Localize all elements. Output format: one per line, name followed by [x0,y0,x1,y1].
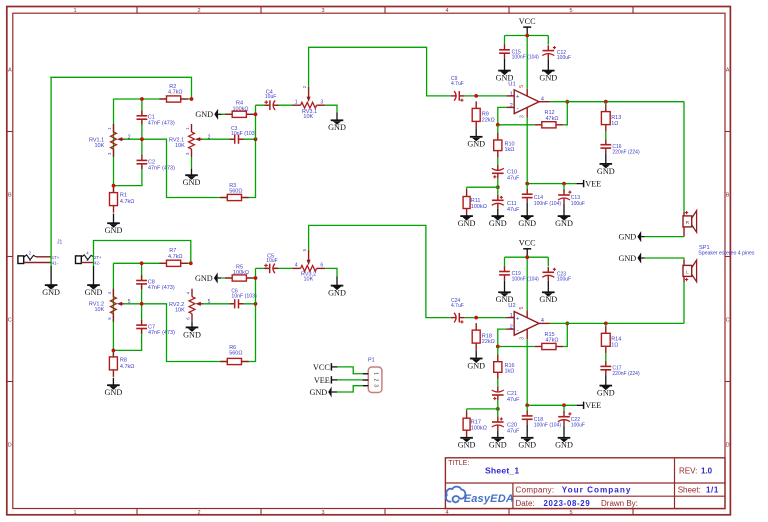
title block outline [445,458,725,509]
svg-text:2: 2 [373,379,379,382]
wire VEE rail to C22 [563,405,565,413]
svg-text:GND: GND [597,389,615,398]
wire VEE rail to C18 [526,405,528,412]
svg-text:GND: GND [496,74,514,83]
wire U1 output down to speaker R [683,102,685,212]
wire C9 to op-amp pin 1 [465,95,507,97]
junction R9 top [474,94,478,98]
resistor R10 [497,133,499,140]
capacitor C13 [558,194,570,200]
svg-text:22kΩ: 22kΩ [482,118,495,124]
wire RV3.1 wiper feed to amp input [309,47,451,96]
ground RV2.1 [191,157,193,169]
wire C4 row [256,104,293,106]
svg-text:GND: GND [555,441,573,450]
wire R10 column top [497,125,499,135]
VEE power flag [583,402,585,409]
capacitor C3 [234,134,240,144]
svg-text:10uF: 10uF [265,94,276,100]
wire VEE rail to C14 [526,184,528,191]
resistor R7 [159,262,166,264]
resistor R16 [497,355,499,362]
svg-text:10K: 10K [303,114,313,120]
svg-text:-: - [517,327,519,334]
svg-text:B: B [726,193,730,199]
wire R13 to C16 [605,132,607,140]
wire C4 column [255,105,257,139]
svg-text:VCC: VCC [313,363,330,372]
wire op-amp pin 3 to VEE rail [526,118,528,184]
wire RV1.2 branch down / R8 top [112,263,114,357]
svg-text:47kΩ: 47kΩ [546,116,559,122]
svg-text:GND: GND [496,295,514,304]
wire speaker R return [645,236,684,238]
wire R14 to C17 [605,353,607,361]
wire C5 column [255,268,257,303]
junction C21 bottom [496,407,500,411]
ground R11 [466,215,468,216]
wire R15 to output [563,323,567,346]
svg-text:5: 5 [569,510,572,516]
svg-text:41-: 41- [52,260,59,265]
resistor R11 [466,190,468,197]
resistor R6 [220,361,227,363]
wire C8 bottom junction to C7 [141,304,143,321]
junction R18 top [474,316,478,320]
VEE flag at P1 [330,376,332,383]
svg-text:47uF: 47uF [507,176,520,182]
wire feedback pin 2 loop [498,329,535,346]
svg-text:L: L [686,270,689,276]
svg-text:100kΩ: 100kΩ [471,204,487,210]
svg-text:100kΩ: 100kΩ [233,106,249,112]
svg-text:47uF: 47uF [507,207,520,213]
wire RV3.2 wiper feed to amp 2 input [309,225,451,317]
svg-text:VEE: VEE [585,180,601,189]
resistor R15 [535,346,542,348]
svg-text:5: 5 [519,85,525,88]
capacitor C17 [600,365,611,371]
ground C17 [605,375,607,386]
wire VEE rail [527,404,576,406]
svg-text:GND: GND [105,226,123,235]
EasyEDA logo [446,487,465,503]
wire C5 row [256,267,293,269]
svg-text:47nF (473): 47nF (473) [148,330,175,336]
svg-text:3: 3 [519,337,525,340]
speaker SP1 R element [683,212,685,216]
svg-text:100uF: 100uF [571,423,585,429]
svg-text:47nF (473): 47nF (473) [148,285,175,291]
capacitor C14 [522,193,533,199]
svg-text:A: A [8,68,12,74]
wire R17 branch [467,408,498,410]
svg-text:GND: GND [618,254,636,263]
wire VEE rail to C13 [563,184,565,192]
potentiometer RV1.2 [111,297,117,314]
svg-text:R: R [686,220,690,226]
svg-text:GND: GND [458,219,476,228]
svg-text:GND: GND [105,388,123,397]
VEE power flag [583,180,585,187]
capacitor C22 [558,415,570,421]
svg-text:REV:: REV: [679,466,697,475]
svg-text:GND: GND [489,219,507,228]
junction feedback [496,123,500,127]
wire output row [550,322,685,324]
op-amp U2 [506,317,514,319]
svg-text:4.7uF: 4.7uF [451,303,464,309]
svg-text:GND: GND [555,219,573,228]
svg-text:GND: GND [458,441,476,450]
resistor R12 [535,124,542,126]
ground C19 [504,280,506,292]
wire C7 bottom to R8 junction [113,328,141,351]
capacitor C4 [269,100,275,110]
svg-text:1kΩ: 1kΩ [505,369,515,375]
svg-text:GND: GND [328,289,346,298]
svg-text:P1: P1 [368,358,375,364]
wire RV3.2 right to ground [325,268,337,276]
svg-text:3: 3 [320,99,323,105]
svg-text:100uF: 100uF [571,201,585,207]
svg-text:1.0: 1.0 [701,466,713,475]
svg-text:10K: 10K [95,143,105,149]
wire VEE to P1 pin 2 [338,379,363,381]
svg-text:A: A [726,68,730,74]
capacitor C1 [141,99,143,139]
capacitor C11 [492,199,504,205]
potentiometer RV1.1 [111,132,117,149]
ground C11 [497,209,499,217]
svg-text:1: 1 [510,91,513,97]
wire C1 bottom junction to C2 [141,139,143,156]
svg-text:100nF (104): 100nF (104) [512,55,540,61]
wire feedback pin 2 loop [498,107,535,124]
wire speaker L to U2 output [683,282,685,323]
svg-text:1: 1 [510,313,513,319]
svg-text:2T+: 2T+ [94,255,102,260]
ground RV2.2 [191,321,193,323]
svg-text:2: 2 [510,103,513,109]
svg-text:J1: J1 [57,239,63,245]
svg-text:10K: 10K [95,307,105,313]
resistor R8 [112,350,114,357]
ground C18 [526,425,528,439]
wire RV2.1 wiper to C3 [203,138,256,140]
wire RV1.1 wiper to C1/C2 junction [125,138,142,140]
svg-text:3: 3 [519,115,525,118]
svg-text:GND: GND [539,295,557,304]
svg-text:3: 3 [321,510,324,516]
wire jack B sleeve to ground [93,263,95,267]
junction R1 top [112,184,116,188]
resistor R14 [605,323,607,326]
svg-text:4.7kΩ: 4.7kΩ [168,90,183,96]
svg-text:R1: R1 [120,193,127,199]
capacitor C23 [542,271,554,277]
svg-text:GND: GND [539,74,557,83]
resistor R3 [220,197,227,199]
svg-text:4: 4 [445,510,448,516]
svg-text:+: + [516,316,520,322]
ground C15 [504,59,506,71]
wire GND flag to R4 [222,113,256,115]
svg-text:220nF (224): 220nF (224) [612,371,640,377]
wire op-amp pin 3 to VEE rail [526,339,528,405]
potentiometer RV3.2 [301,266,317,272]
wire top feed to RV2.1 [50,77,191,99]
wire jack A signal up to top tone feed [50,77,52,262]
svg-text:4.7uF: 4.7uF [451,81,464,87]
svg-text:1kΩ: 1kΩ [505,147,515,153]
svg-text:EasyEDA: EasyEDA [464,493,514,505]
capacitor C8 [141,263,143,304]
capacitor C6 [234,299,240,309]
ground C14 [526,203,528,217]
svg-text:D: D [8,443,12,449]
svg-text:6: 6 [320,263,323,269]
svg-text:Company:: Company: [516,486,555,495]
svg-text:100uF: 100uF [557,55,571,61]
svg-text:Sheet_1: Sheet_1 [485,465,519,475]
svg-text:GND: GND [328,123,346,132]
svg-text:Date:: Date: [516,499,535,508]
wire R6 loop [142,304,256,362]
svg-text:5: 5 [569,8,572,14]
wire VCC rail [505,256,549,258]
svg-text:-: - [517,105,519,112]
svg-text:VEE: VEE [314,376,330,385]
svg-text:2: 2 [197,510,200,516]
svg-text:VCC: VCC [519,17,536,26]
svg-text:GND: GND [618,233,636,242]
svg-text:GND: GND [518,219,536,228]
svg-text:22kΩ: 22kΩ [482,339,495,345]
svg-text:10nF (103): 10nF (103) [231,131,257,137]
ground C23 [547,281,549,293]
svg-text:GND: GND [183,178,201,187]
resistor R5 [225,277,232,279]
wire VCC rail [505,35,549,37]
svg-text:R8: R8 [120,358,127,364]
svg-text:C: C [726,318,730,324]
junction R8 top [112,349,116,353]
svg-text:3: 3 [373,384,379,387]
wire GND to P1 pin 3 [337,386,363,392]
resistor R2 [159,98,166,100]
svg-text:10K: 10K [175,308,185,314]
capacitor C19 [499,270,510,276]
capacitor C16 [600,144,611,150]
ground RV3.2 [336,277,338,286]
svg-text:5: 5 [519,306,525,309]
connector J1 jack A [18,256,24,264]
ground R17 [466,437,468,438]
ground C16 [605,153,607,164]
resistor R13 [605,102,607,105]
svg-text:4: 4 [445,8,448,14]
svg-text:+: + [516,95,520,101]
svg-text:100kΩ: 100kΩ [233,270,249,276]
svg-text:1Ω: 1Ω [611,343,618,349]
svg-text:1: 1 [73,510,76,516]
resistor R1 [113,186,115,193]
svg-text:100uF: 100uF [557,277,571,283]
connector P1 [368,367,382,393]
svg-text:10K: 10K [304,277,314,283]
resistor R18 [475,323,477,330]
svg-text:47kΩ: 47kΩ [546,338,559,344]
wire R3 loop [142,139,256,197]
svg-text:10nF (103): 10nF (103) [231,294,257,300]
svg-text:D: D [726,443,730,449]
ground C22 [563,425,565,438]
capacitor C10 [492,169,504,175]
speaker SP1 L element [683,260,685,266]
ground jack B [93,266,95,285]
svg-text:47nF (473): 47nF (473) [148,120,175,126]
junction dots top tone [140,97,144,101]
wire RV3.1 right to ground [325,105,337,112]
svg-text:GND: GND [85,288,103,297]
wire R16 column top [497,347,499,357]
potentiometer RV2.2 [189,297,195,314]
ground C12 [547,59,549,71]
svg-text:GND: GND [195,274,213,283]
svg-text:GND: GND [183,330,201,339]
wire GND flag to R5 [221,277,255,279]
resistor R17 [466,411,468,418]
svg-text:1: 1 [373,372,379,375]
svg-text:1: 1 [73,8,76,14]
capacitor C20 [492,421,504,427]
wire VEE rail [527,183,576,185]
svg-text:4.7kΩ: 4.7kΩ [168,254,183,260]
svg-text:GND: GND [309,388,327,397]
capacitor C9 [455,91,461,101]
svg-text:Sheet:: Sheet: [678,486,701,495]
svg-text:1: 1 [295,99,298,105]
wire jack B signal up and right to bottom tone feed [94,241,191,264]
svg-text:100kΩ: 100kΩ [471,426,487,432]
svg-text:GND: GND [489,441,507,450]
wire R11 branch [467,186,498,188]
svg-text:GND: GND [195,110,213,119]
svg-text:2023-08-29: 2023-08-29 [544,499,591,508]
svg-text:2: 2 [510,325,513,331]
capacitor C15 [499,49,510,55]
wire R7 row [113,262,190,264]
wire C24 to op-amp pin 1 [465,317,507,319]
svg-text:C: C [8,318,12,324]
wire C2 bottom to R1 junction [114,163,142,186]
svg-text:Drawn By:: Drawn By: [601,499,638,508]
svg-text:VEE: VEE [585,401,601,410]
svg-text:GND: GND [467,361,485,370]
ground R1 [113,214,115,224]
svg-text:42-: 42- [94,260,101,265]
svg-text:Speaker estereo 4 pines: Speaker estereo 4 pines [698,250,755,256]
svg-text:GND: GND [597,167,615,176]
capacitor C7 [136,324,147,330]
svg-text:100nF (104): 100nF (104) [512,276,540,282]
ground jack A [50,266,52,285]
svg-text:100nF (104): 100nF (104) [534,201,562,207]
wire R2 row [114,98,192,100]
potentiometer RV2.1 [189,132,195,149]
wire output row [550,101,685,103]
svg-text:GND: GND [518,441,536,450]
wire jack A sleeve to ground [50,263,52,267]
capacitor C24 [455,312,461,322]
svg-text:4: 4 [295,263,298,269]
capacitor C12 [542,49,554,55]
junction feedback [496,345,500,349]
svg-text:2: 2 [197,8,200,14]
ground R8 [112,378,114,386]
svg-text:10uF: 10uF [266,258,277,264]
ground C20 [497,431,499,439]
capacitor C2 [136,159,147,165]
svg-text:1/1: 1/1 [706,486,719,495]
svg-text:47nF (473): 47nF (473) [148,165,175,171]
wire R10 to C10 [497,158,499,165]
connector J1 jack B [76,256,82,264]
op-amp U1 [506,95,514,97]
svg-text:47uF: 47uF [507,429,520,435]
svg-text:560Ω: 560Ω [229,351,242,357]
wire R16 to C21 [497,379,499,386]
svg-text:GND: GND [42,288,60,297]
wire RV2.2 wiper to C6 [203,303,256,305]
capacitor C18 [522,415,533,421]
svg-text:47uF: 47uF [507,397,520,403]
ground C13 [563,204,565,217]
svg-text:560Ω: 560Ω [229,189,242,195]
svg-text:1T+: 1T+ [52,255,60,260]
svg-text:Your Company: Your Company [562,486,632,495]
ground R18 [475,350,477,359]
svg-text:GND: GND [467,140,485,149]
svg-text:1Ω: 1Ω [611,121,618,127]
wire speaker L feed [645,258,684,260]
junction dots bottom tone [140,261,144,265]
VCC flag at P1 [330,363,332,370]
wire VCC to P1 pin 1 [338,367,363,374]
resistor R9 [475,101,477,108]
resistor R4 [225,113,232,115]
capacitor C5 [268,263,274,273]
svg-text:100nF (104): 100nF (104) [534,423,562,429]
wire op-amp pin 5 from VCC rail [526,257,528,310]
wire RV1.1 branch down / C2 bottom row / R1 top [113,99,115,192]
ground RV3.1 [336,113,338,121]
svg-text:10K: 10K [175,143,185,149]
wire R12 to output [563,102,567,125]
svg-text:3: 3 [321,8,324,14]
wire op-amp pin 5 from VCC rail [526,36,528,89]
potentiometer RV3.1 [301,102,317,108]
svg-text:4.7kΩ: 4.7kΩ [120,199,135,205]
svg-text:4.7kΩ: 4.7kΩ [120,364,135,370]
svg-text:VCC: VCC [519,239,536,248]
svg-text:TITLE:: TITLE: [448,460,469,467]
wire RV1.2 wiper to C8/C7 junction [124,303,141,305]
svg-text:B: B [8,193,12,199]
junction C10 bottom [496,185,500,189]
capacitor C21 [492,391,504,397]
